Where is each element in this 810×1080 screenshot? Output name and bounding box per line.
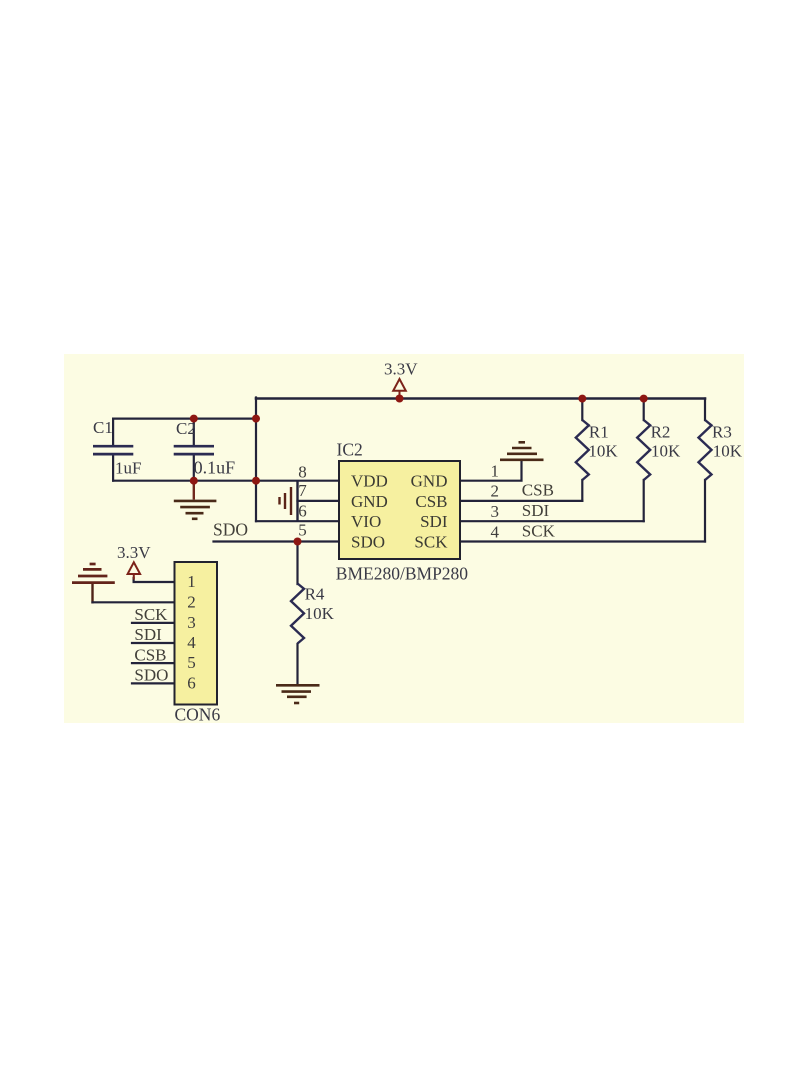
svg-text:4: 4 xyxy=(187,633,196,652)
svg-text:SDI: SDI xyxy=(522,501,550,520)
svg-text:SDO: SDO xyxy=(351,533,385,552)
wire top 3.3V rail xyxy=(256,397,705,400)
wire R1 leads xyxy=(581,399,583,501)
svg-text:1: 1 xyxy=(187,572,196,591)
node junction R2 top xyxy=(640,395,648,403)
svg-text:CSB: CSB xyxy=(134,645,166,664)
resistor R2 xyxy=(637,420,650,480)
svg-text:R2: R2 xyxy=(651,423,671,442)
svg-text:6: 6 xyxy=(298,502,307,521)
svg-text:SDO: SDO xyxy=(213,520,248,540)
svg-text:2: 2 xyxy=(491,482,500,501)
ground at CON6 pin 2 (pointing up) xyxy=(72,564,115,583)
svg-text:10K: 10K xyxy=(305,604,335,623)
resistor R3 labels xyxy=(712,423,743,461)
IC U2: IC2 BME280/BMP280 body xyxy=(298,440,499,584)
svg-text:5: 5 xyxy=(187,653,196,672)
wire IC2 pin 8 xyxy=(256,480,339,482)
svg-text:SCK: SCK xyxy=(522,522,556,541)
svg-text:5: 5 xyxy=(298,520,307,539)
svg-text:R3: R3 xyxy=(712,423,732,442)
wire ground stub to CON6 pin 2 xyxy=(91,583,93,602)
wire CON6 pin 2 from ground xyxy=(93,601,175,603)
wire IC2 pin 2 CSB net xyxy=(460,500,582,502)
svg-text:7: 7 xyxy=(298,481,307,500)
svg-text:0.1uF: 0.1uF xyxy=(194,458,236,478)
capacitor C1 labels xyxy=(93,418,141,478)
node junction C2 bottom xyxy=(190,477,198,485)
svg-text:6: 6 xyxy=(187,673,196,692)
svg-text:VDD: VDD xyxy=(351,472,388,491)
svg-text:2: 2 xyxy=(187,593,196,612)
svg-text:CON6: CON6 xyxy=(175,705,221,725)
svg-text:R1: R1 xyxy=(589,423,609,442)
wire IC2 pin 6 xyxy=(256,520,339,522)
svg-text:4: 4 xyxy=(491,522,500,541)
resistor R4 labels xyxy=(305,584,335,623)
wire CON6 pin 4 SDI xyxy=(132,642,175,644)
capacitor C1 xyxy=(93,446,133,454)
schematic panel background xyxy=(64,354,744,723)
wire CON6 pin 6 SDO xyxy=(132,682,175,684)
connector CON6 body xyxy=(175,562,221,725)
svg-text:R4: R4 xyxy=(305,584,325,603)
resistor R2 labels xyxy=(651,423,681,461)
svg-text:3.3V: 3.3V xyxy=(384,360,418,379)
svg-text:8: 8 xyxy=(298,462,307,481)
svg-text:SDI: SDI xyxy=(420,512,448,531)
node junction SDO / R4 top xyxy=(294,538,302,546)
resistor R1 labels xyxy=(588,423,618,461)
wire CON6 pin 5 CSB xyxy=(132,662,175,664)
svg-text:GND: GND xyxy=(411,472,448,491)
wire IC2 pin 4 SCK net xyxy=(460,540,705,542)
node junction R1 top xyxy=(578,395,586,403)
wire main left vertical xyxy=(255,398,257,522)
capacitor C2 labels xyxy=(176,419,235,478)
node junction 3.3V at rail xyxy=(396,395,404,403)
svg-text:VIO: VIO xyxy=(351,512,381,531)
svg-text:SCK: SCK xyxy=(414,533,448,552)
node junction cap top rail / main vertical xyxy=(252,415,260,423)
svg-text:CSB: CSB xyxy=(522,481,554,500)
wire IC2 pin 5 SDO xyxy=(214,540,340,542)
svg-text:10K: 10K xyxy=(651,442,681,461)
ground at IC2 pin 1 (pointing up) xyxy=(500,442,544,460)
svg-text:3.3V: 3.3V xyxy=(117,543,151,562)
node junction cap bottom rail / pin 8 xyxy=(252,477,260,485)
wire C2 leads xyxy=(193,419,195,481)
wire IC2 pin 7 xyxy=(298,500,340,502)
resistor R4 xyxy=(291,584,304,644)
wire CON6 pin 1 from 3.3V xyxy=(134,578,175,582)
ground under C2 xyxy=(174,481,217,519)
wire R2 leads xyxy=(643,399,645,522)
svg-text:CSB: CSB xyxy=(415,492,447,511)
svg-text:10K: 10K xyxy=(588,442,618,461)
ground at IC2 pin 7 (sideways) xyxy=(280,481,298,522)
node junction C2 top xyxy=(190,415,198,423)
svg-text:BME280/BMP280: BME280/BMP280 xyxy=(336,564,468,584)
wire IC2 pin 1 to ground xyxy=(460,461,522,481)
wire IC2 pin 3 SDI net xyxy=(460,520,644,522)
svg-text:1uF: 1uF xyxy=(115,459,141,478)
svg-text:GND: GND xyxy=(351,492,388,511)
wire CON6 pin 3 SCK xyxy=(132,622,175,624)
power symbol 3.3V top xyxy=(384,360,418,398)
svg-text:10K: 10K xyxy=(713,442,743,461)
svg-text:C2: C2 xyxy=(176,419,196,438)
wire C1 leads xyxy=(112,419,114,481)
resistor R1 xyxy=(576,420,589,480)
wire R3 leads xyxy=(704,399,706,542)
wire R4 leads xyxy=(296,542,298,685)
power symbol 3.3V left xyxy=(117,543,151,580)
svg-text:3: 3 xyxy=(187,613,196,632)
resistor R3 xyxy=(699,420,712,480)
svg-text:SDI: SDI xyxy=(134,625,162,644)
ground under R4 xyxy=(276,685,320,703)
svg-text:SCK: SCK xyxy=(134,605,168,624)
junction dots xyxy=(190,395,648,546)
wire capacitor bottom rail xyxy=(113,480,256,482)
svg-text:C1: C1 xyxy=(93,418,113,437)
svg-text:SDO: SDO xyxy=(134,665,168,684)
svg-text:IC2: IC2 xyxy=(337,440,363,460)
svg-text:1: 1 xyxy=(491,462,500,481)
capacitor C2 xyxy=(174,446,214,454)
wire capacitor top rail xyxy=(113,418,256,420)
svg-text:3: 3 xyxy=(491,502,500,521)
